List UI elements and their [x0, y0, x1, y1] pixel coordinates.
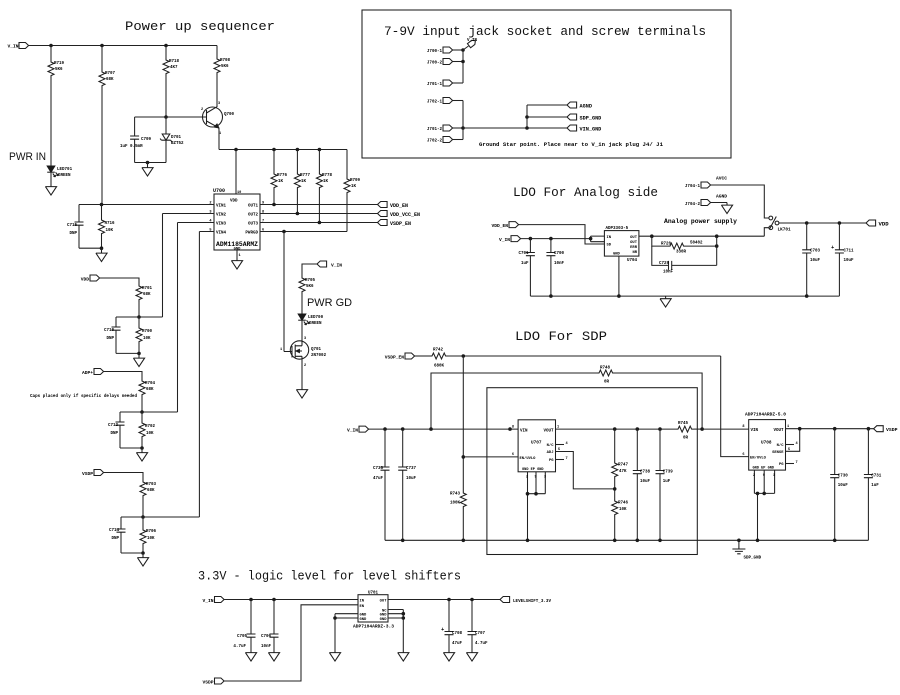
svg-text:100K: 100K: [450, 502, 461, 506]
resistor R705: [299, 276, 305, 294]
svg-text:3: 3: [304, 337, 306, 341]
svg-text:R743: R743: [450, 493, 461, 497]
svg-text:VSDP: VSDP: [82, 471, 93, 477]
svg-text:J701-2: J701-2: [427, 128, 443, 132]
wire Q700 emitter down: [218, 128, 220, 150]
svg-text:DNP: DNP: [110, 432, 118, 436]
capacitor C729 10nF: [652, 236, 717, 270]
ground VDD divider: [138, 353, 140, 355]
svg-text:J704-1: J704-1: [685, 185, 701, 189]
wire R748 to U708 VIN node: [615, 373, 702, 429]
wire U707 GND pins: [528, 472, 546, 541]
wire U708 GND pins: [754, 470, 774, 540]
svg-text:ADP7104ARDZ-3.3: ADP7104ARDZ-3.3: [353, 626, 395, 630]
svg-text:VOUT: VOUT: [773, 429, 784, 433]
resistor R742 680K: [430, 353, 448, 359]
terminal VDD (output): [866, 220, 876, 226]
svg-text:V_IN: V_IN: [331, 263, 342, 269]
capacitor C706 10nF: [273, 600, 275, 635]
wire R742 node down through R743: [462, 356, 464, 491]
svg-text:C703: C703: [810, 250, 821, 254]
svg-text:OUT2: OUT2: [248, 214, 259, 218]
capacitor C710 DNP: [115, 317, 117, 327]
svg-text:5K6: 5K6: [221, 65, 229, 69]
wire U707 out to U708 VIN: [702, 428, 749, 430]
svg-text:6: 6: [512, 453, 514, 457]
svg-text:V_IN: V_IN: [7, 44, 18, 50]
svg-text:U701: U701: [368, 591, 379, 595]
wire V_IN to R705: [302, 264, 317, 276]
wire top rail V_IN: [29, 45, 217, 47]
svg-text:LDO For Analog side: LDO For Analog side: [513, 185, 658, 200]
terminal VIN_GND: [567, 125, 577, 131]
diode D701 BZT52 (zener): [165, 117, 167, 134]
svg-text:V_IN: V_IN: [499, 237, 510, 243]
svg-text:C737: C737: [406, 467, 417, 471]
frame 7-9V input box: [362, 10, 731, 158]
ground below LED701: [50, 172, 52, 184]
wire Q701 source to ground: [301, 359, 303, 387]
svg-text:AGND: AGND: [716, 194, 727, 200]
svg-text:10uF: 10uF: [844, 259, 855, 263]
svg-text:2: 2: [304, 364, 306, 368]
terminal VDD_VCC_EN: [378, 211, 388, 217]
capacitor C709 1uF: [134, 117, 136, 136]
terminal V_IN (PWR GD branch): [317, 261, 327, 267]
resistor R704: [139, 379, 145, 397]
svg-text:VSDP: VSDP: [202, 680, 213, 686]
ground below C709/D701: [147, 163, 149, 166]
svg-text:EN: EN: [360, 605, 365, 609]
resistor R745 0R: [676, 426, 694, 432]
svg-text:LK701: LK701: [778, 228, 792, 233]
svg-text:LED701: LED701: [57, 168, 73, 172]
svg-text:GND: GND: [360, 618, 368, 622]
svg-text:VDD_EN: VDD_EN: [491, 223, 508, 229]
terminal SDP_GND: [567, 114, 577, 120]
wire node to VIN3 drop: [142, 411, 178, 413]
svg-text:VSDP_EN: VSDP_EN: [385, 355, 405, 361]
resistor R748 0R: [597, 370, 615, 376]
svg-text:10uF: 10uF: [838, 484, 849, 488]
svg-text:EN/UVLO: EN/UVLO: [520, 456, 537, 461]
wire emitter rail: [219, 149, 347, 151]
svg-text:J702-1: J702-1: [427, 101, 443, 105]
resistor R700 10K: [138, 317, 140, 326]
svg-text:3.3V - logic level for level s: 3.3V - logic level for level shifters: [198, 569, 461, 584]
svg-text:0R: 0R: [604, 381, 610, 385]
svg-text:C710: C710: [104, 329, 115, 333]
svg-text:OUT3: OUT3: [248, 223, 259, 227]
wire R718 to base node: [165, 76, 167, 117]
svg-text:3: 3: [218, 102, 220, 106]
resistor R743 100K: [460, 491, 466, 509]
wire R708 to Q700 collector: [216, 75, 218, 107]
svg-text:J701-1: J701-1: [427, 83, 443, 87]
svg-text:47K: 47K: [619, 470, 627, 474]
wire J701-2 to node: [453, 127, 463, 129]
svg-text:AVCC: AVCC: [716, 176, 727, 182]
wire EN from VSDP: [224, 605, 358, 681]
svg-text:R746: R746: [618, 502, 629, 506]
svg-text:C707: C707: [475, 632, 486, 636]
ground VIN1 divider: [101, 248, 103, 250]
svg-text:Analog power supply: Analog power supply: [664, 218, 737, 225]
svg-text:10uF: 10uF: [640, 480, 651, 484]
svg-text:R719: R719: [54, 62, 65, 66]
svg-text:Power up sequencer: Power up sequencer: [125, 19, 275, 34]
svg-text:R747: R747: [618, 464, 629, 468]
wire ADP+ to R704: [104, 372, 142, 380]
wire ground group vertical: [462, 101, 464, 140]
resistor R778: [318, 150, 320, 173]
capacitor C708 47uF (polarized): [448, 600, 450, 632]
svg-text:ADP+: ADP+: [82, 370, 93, 376]
svg-text:J704-2: J704-2: [685, 203, 701, 207]
node rail junctions: [234, 148, 238, 152]
svg-text:J700-2: J700-2: [427, 62, 443, 66]
svg-text:10nF: 10nF: [261, 645, 272, 649]
svg-text:R706: R706: [146, 530, 157, 534]
wire R748 bypass line: [431, 373, 597, 429]
svg-text:U700: U700: [213, 188, 225, 194]
wire VSDP divider bottom: [121, 552, 143, 554]
svg-text:ADP3303-5: ADP3303-5: [606, 227, 629, 231]
svg-text:R707: R707: [105, 72, 116, 76]
resistor R776: [273, 150, 275, 173]
svg-text:R742: R742: [433, 349, 444, 353]
svg-text:DNP: DNP: [69, 232, 77, 236]
ground analog rail: [660, 296, 671, 307]
svg-text:R776: R776: [277, 174, 288, 178]
svg-text:C714: C714: [109, 529, 120, 533]
wire R778 to OUT3: [318, 190, 320, 223]
svg-text:68K: 68K: [106, 78, 114, 82]
wire V_IN to U701: [224, 599, 358, 601]
svg-text:9: 9: [535, 476, 537, 480]
svg-text:N/C: N/C: [777, 443, 785, 448]
wire EN of U707: [463, 456, 518, 458]
capacitor C737 10uF: [402, 429, 404, 467]
svg-text:1: 1: [239, 254, 241, 258]
IC U700 ADM1185ARMZ: [214, 194, 260, 250]
svg-text:680K: 680K: [434, 365, 445, 369]
capacitor C700 10nF: [550, 239, 552, 253]
svg-text:10K: 10K: [106, 229, 114, 233]
svg-text:C709: C709: [141, 138, 152, 142]
svg-text:7: 7: [796, 461, 798, 465]
ground ADP+ divider: [141, 448, 143, 450]
svg-text:DNP: DNP: [111, 537, 119, 541]
jumper LK701: [769, 216, 773, 220]
resistor R777: [296, 150, 298, 173]
wire SENSE feedback U708: [786, 429, 800, 452]
svg-text:C738: C738: [640, 471, 651, 475]
svg-text:50402: 50402: [690, 242, 703, 246]
svg-text:68K: 68K: [147, 489, 155, 493]
capacitor C731 1uF: [867, 429, 869, 475]
resistor R703: [140, 480, 146, 498]
wire PWRGD down to Q701 gate: [283, 232, 285, 352]
svg-text:C715: C715: [67, 224, 78, 228]
terminal LEVELSHIFT_3.3V: [500, 597, 510, 603]
svg-text:VIN_GND: VIN_GND: [580, 127, 602, 133]
svg-text:V_IN: V_IN: [467, 39, 478, 43]
wire J700-1 to node: [453, 49, 463, 51]
wire VDD to R701: [100, 278, 139, 284]
svg-text:AGND: AGND: [580, 104, 592, 110]
ground U701 right: [398, 650, 409, 661]
node base junction: [164, 115, 168, 119]
wire VOUT line U707: [556, 428, 677, 430]
svg-text:2: 2: [201, 108, 203, 112]
svg-text:10: 10: [237, 191, 241, 195]
capacitor C707 4.7uF: [471, 600, 473, 632]
svg-text:C739: C739: [663, 471, 674, 475]
capacitor C714 DNP: [120, 517, 122, 529]
wire J701-1 to node: [453, 82, 463, 84]
svg-text:8: 8: [512, 426, 514, 430]
capacitor C730 10uF: [834, 429, 836, 475]
svg-text:SDP_GND: SDP_GND: [744, 557, 762, 561]
wire node to VIN4 drop: [143, 516, 199, 518]
wire VIN3 sense: [178, 223, 215, 413]
svg-text:C731: C731: [871, 475, 882, 479]
svg-text:GND: GND: [613, 253, 621, 257]
svg-text:0R: 0R: [683, 437, 689, 441]
wire VIN_GND line: [463, 127, 567, 129]
svg-text:VDD_EN: VDD_EN: [390, 203, 408, 209]
pin stub PG U707: [556, 459, 565, 461]
svg-text:OUT: OUT: [380, 600, 388, 604]
wire LDO out to LK701: [764, 228, 769, 237]
node junction top rail: [49, 44, 53, 48]
wire J700-2 to node: [453, 61, 463, 63]
svg-text:D701: D701: [171, 136, 182, 140]
svg-text:5: 5: [558, 448, 560, 452]
svg-text:7-9V input jack socket and scr: 7-9V input jack socket and screw termina…: [384, 24, 706, 39]
svg-text:LED700: LED700: [308, 316, 324, 320]
wire VOUT rail U708: [786, 428, 874, 430]
svg-text:SD: SD: [607, 244, 612, 248]
svg-text:C712: C712: [108, 424, 119, 428]
wire OUT line: [639, 235, 764, 237]
svg-text:LDO For SDP: LDO For SDP: [515, 329, 607, 344]
wire LED700 to Q701 drain: [301, 320, 303, 341]
svg-text:1uF: 1uF: [663, 480, 671, 484]
svg-text:VDD: VDD: [230, 200, 238, 204]
svg-text:C729: C729: [659, 262, 670, 266]
svg-text:V_IN: V_IN: [202, 598, 213, 604]
wire U701 left GND pins: [335, 614, 358, 650]
resistor R747 47K: [614, 429, 616, 461]
IC U701 ADP7104ARDZ-3.3: [358, 595, 388, 622]
wire U701 right GND pins: [388, 610, 403, 651]
svg-text:U704: U704: [627, 259, 638, 263]
svg-text:SDP_GND: SDP_GND: [580, 116, 602, 122]
wire J702-1 to node: [453, 100, 463, 102]
terminal AGND: [567, 102, 577, 108]
svg-text:OUT1: OUT1: [248, 205, 259, 209]
wire ADP+ divider bottom: [120, 447, 142, 449]
wire ADJ feedback: [556, 452, 615, 489]
resistor R702 10K: [141, 412, 143, 421]
IC U708 ADP7104ARDZ-5.0: [749, 420, 786, 471]
svg-text:Ground Star point. Place near: Ground Star point. Place near to V_in ja…: [479, 141, 664, 148]
wire AGND line: [527, 104, 567, 106]
svg-text:VDD: VDD: [81, 277, 90, 283]
svg-text:10nF: 10nF: [663, 271, 674, 275]
wire VDD divider bottom: [116, 352, 139, 354]
pin stub PG U708: [786, 463, 795, 465]
svg-text:C730: C730: [838, 475, 849, 479]
svg-text:10K: 10K: [619, 508, 627, 512]
svg-text:7: 7: [566, 457, 568, 461]
wire R776 to OUT1: [273, 190, 275, 205]
svg-text:VIN2: VIN2: [216, 214, 227, 218]
IC U707 regulator: [518, 420, 555, 472]
capacitor C715 DNP: [78, 205, 80, 223]
svg-text:VIN4: VIN4: [216, 232, 227, 236]
wire VIN4 sense: [199, 232, 214, 518]
svg-text:Caps placed only if specific d: Caps placed only if specific delays need…: [30, 394, 137, 399]
resistor R718: [165, 46, 167, 59]
wire R705 to LED700: [301, 294, 303, 314]
svg-text:VSDP_EN: VSDP_EN: [390, 221, 411, 227]
svg-text:ERR: ERR: [630, 246, 638, 250]
svg-text:10nF: 10nF: [554, 262, 565, 266]
svg-text:VIN1: VIN1: [216, 205, 227, 209]
wire R777 to OUT2: [296, 190, 298, 214]
node bottom junction: [146, 161, 150, 165]
wire gnd star vertical: [526, 105, 528, 128]
svg-text:Q700: Q700: [224, 113, 235, 117]
svg-text:BZT52: BZT52: [171, 142, 184, 146]
svg-text:VOUT: VOUT: [543, 429, 554, 433]
svg-text:GREEN: GREEN: [309, 322, 322, 326]
capacitor C705 4.7uF: [250, 600, 252, 635]
svg-text:5: 5: [788, 448, 790, 452]
svg-text:VDD_VCC_EN: VDD_VCC_EN: [390, 212, 420, 218]
terminal VDD_EN: [378, 202, 388, 208]
svg-text:5K6: 5K6: [306, 285, 314, 289]
wire AVCC to LK701: [711, 185, 770, 218]
wire V_IN to IN pins: [521, 236, 605, 242]
resistor R708: [216, 46, 218, 58]
svg-text:10K: 10K: [143, 337, 151, 341]
svg-text:N/C: N/C: [547, 443, 555, 448]
svg-text:4.7uF: 4.7uF: [475, 642, 488, 646]
svg-text:R708: R708: [220, 59, 231, 63]
svg-text:IN: IN: [607, 236, 612, 240]
svg-text:EN/UVLO: EN/UVLO: [750, 456, 767, 461]
wire GND pin down: [618, 256, 620, 296]
svg-text:J702-2: J702-2: [427, 140, 443, 144]
resistor R701: [136, 284, 142, 302]
svg-text:1: 1: [280, 348, 282, 352]
wire SDP_GND line: [527, 116, 567, 118]
svg-text:6: 6: [742, 453, 744, 457]
svg-text:47uF: 47uF: [452, 642, 463, 646]
svg-text:PWR IN: PWR IN: [9, 151, 46, 163]
svg-text:2: 2: [526, 476, 528, 480]
wire SDP ground rail: [385, 539, 868, 541]
svg-text:ADJ: ADJ: [547, 451, 554, 455]
svg-text:ADP7104ARDZ-5.0: ADP7104ARDZ-5.0: [745, 414, 787, 418]
ground C705: [245, 650, 256, 661]
svg-text:C711: C711: [844, 250, 855, 254]
svg-text:C736: C736: [373, 467, 384, 471]
ground VSDP divider: [142, 553, 144, 555]
svg-text:C701: C701: [518, 252, 529, 256]
ground U701 left: [329, 650, 340, 661]
svg-text:+: +: [441, 626, 445, 633]
svg-text:SENSE: SENSE: [772, 451, 784, 455]
svg-text:4.7uF: 4.7uF: [233, 645, 246, 649]
resistor R719: [50, 46, 52, 61]
wire PWRGD: [260, 231, 347, 233]
svg-text:R701: R701: [142, 287, 153, 291]
svg-text:GND: GND: [380, 614, 388, 618]
wire R707 down to VIN1 node: [101, 88, 103, 205]
terminal VSDP_EN: [378, 220, 388, 226]
terminal V_IN (box): [463, 46, 469, 50]
svg-text:VSDP: VSDP: [886, 427, 898, 433]
svg-text:C708: C708: [452, 632, 463, 636]
svg-text:R704: R704: [145, 382, 156, 386]
svg-text:R778: R778: [322, 174, 333, 178]
svg-text:R702: R702: [145, 425, 156, 429]
svg-text:DNP: DNP: [106, 337, 114, 341]
wire V_IN group vertical: [462, 50, 464, 83]
resistor R716 10K: [101, 205, 103, 219]
transistor Q700 (NPN): [203, 107, 223, 127]
svg-text:NR: NR: [632, 251, 637, 255]
wire analog ground rail: [530, 295, 839, 297]
svg-text:+: +: [831, 244, 835, 251]
resistor R746 10K: [614, 489, 616, 499]
svg-text:PG: PG: [779, 463, 784, 467]
resistor R706 10K: [142, 517, 144, 528]
svg-text:C705: C705: [237, 635, 248, 639]
wire node to VIN2 drop: [139, 316, 163, 318]
svg-text:R716: R716: [105, 222, 116, 226]
svg-text:IN: IN: [360, 600, 365, 604]
ground below Q701: [296, 387, 307, 398]
capacitor C736 47uF: [384, 429, 386, 467]
svg-text:10K: 10K: [147, 537, 155, 541]
svg-text:PWR GD: PWR GD: [307, 297, 352, 309]
svg-text:GREEN: GREEN: [58, 174, 71, 178]
svg-text:4: 4: [566, 442, 569, 446]
svg-text:10K: 10K: [146, 432, 154, 436]
svg-text:2N7002: 2N7002: [311, 354, 327, 358]
ground C708: [443, 650, 454, 661]
svg-text:3: 3: [773, 474, 775, 478]
wire OUT3 to VSDP_EN: [260, 222, 378, 224]
svg-text:1uF: 1uF: [871, 484, 879, 488]
resistor R720 (feedback): [652, 236, 668, 246]
svg-text:PG: PG: [549, 459, 554, 463]
capacitor C738 10uF: [636, 429, 638, 470]
svg-text:4: 4: [796, 442, 799, 446]
pin stub N/C U708: [786, 444, 795, 446]
svg-text:GND EP GND: GND EP GND: [753, 466, 775, 470]
wire cap/zener bottoms: [135, 162, 166, 164]
svg-text:1K: 1K: [301, 180, 307, 184]
svg-text:R748: R748: [600, 367, 611, 371]
ground C706: [268, 650, 279, 661]
